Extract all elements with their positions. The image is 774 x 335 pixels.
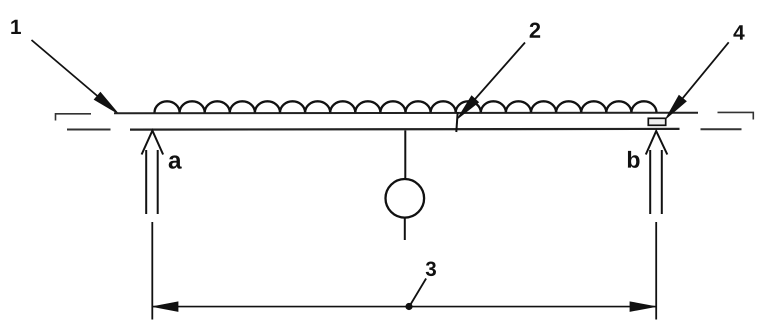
clamp plate (item 4) xyxy=(648,118,665,125)
dimension arrowhead right xyxy=(630,302,656,312)
corrugations (row of 20 humps) xyxy=(155,101,657,112)
leader arrow to 1 (strip) xyxy=(32,40,119,114)
left break mark bottom dash xyxy=(67,129,111,131)
left extension line xyxy=(151,222,153,320)
strip bottom edge line xyxy=(130,128,680,131)
right break mark bottom dash xyxy=(701,128,742,130)
strip top edge line xyxy=(114,112,698,115)
support arrow a (open head, double shaft) xyxy=(142,131,164,214)
label 4 xyxy=(733,25,744,39)
dimension arrowhead left xyxy=(153,302,178,312)
label 2 xyxy=(530,22,540,37)
leader arrow to 4 (clamp plate) xyxy=(666,42,729,118)
dimension line 3 xyxy=(152,306,656,308)
leader line to 3 xyxy=(411,279,427,305)
label 1 xyxy=(11,20,21,34)
node dot on dimension line xyxy=(405,303,412,310)
hanger wire above dial xyxy=(404,131,406,179)
label 3 xyxy=(426,261,436,276)
seam tick (item 2) xyxy=(456,112,457,132)
leader arrow to 2 (seam) xyxy=(458,43,525,119)
right extension line xyxy=(655,222,657,320)
label b xyxy=(628,151,640,168)
right break mark top dash xyxy=(718,112,754,119)
support arrow b (open head, double shaft) xyxy=(646,131,668,214)
label a xyxy=(169,155,182,168)
stem below dial xyxy=(404,218,406,240)
left break mark top dash xyxy=(56,114,92,121)
dial gauge circle xyxy=(386,179,425,218)
